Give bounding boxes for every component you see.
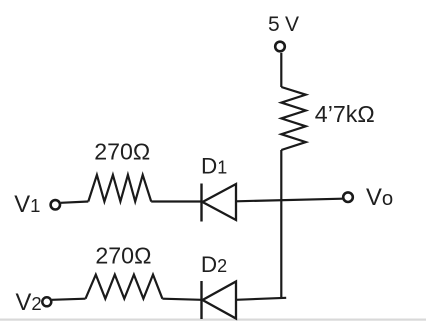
svg-text:270Ω: 270Ω (94, 138, 150, 164)
svg-text:D2: D2 (201, 252, 227, 277)
svg-text:V2: V2 (16, 289, 42, 316)
svg-text:D1: D1 (201, 153, 227, 178)
svg-text:Vo: Vo (366, 184, 393, 211)
svg-text:270Ω: 270Ω (95, 243, 151, 269)
svg-text:4’7kΩ: 4’7kΩ (315, 101, 375, 127)
svg-text:V1: V1 (14, 191, 40, 218)
